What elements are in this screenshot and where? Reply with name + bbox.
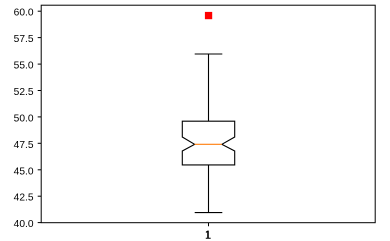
y tick 42.5 bbox=[14, 193, 42, 204]
svg-text:60.0: 60.0 bbox=[14, 8, 34, 19]
median line bbox=[195, 143, 222, 145]
axes frame bbox=[41, 5, 375, 223]
svg-text:57.5: 57.5 bbox=[14, 34, 34, 45]
svg-text:52.5: 52.5 bbox=[14, 87, 34, 98]
lower cap bbox=[195, 212, 223, 214]
upper whisker bbox=[208, 54, 210, 121]
svg-text:40.0: 40.0 bbox=[14, 219, 34, 230]
y tick 60.0 bbox=[14, 8, 42, 19]
y tick 40.0 bbox=[14, 219, 42, 230]
y tick 45.0 bbox=[14, 166, 42, 177]
lower whisker bbox=[208, 165, 210, 213]
svg-text:55.0: 55.0 bbox=[14, 61, 34, 72]
y tick 55.0 bbox=[14, 61, 42, 72]
y tick 47.5 bbox=[14, 140, 42, 151]
notched box bbox=[182, 121, 234, 165]
y tick 52.5 bbox=[14, 87, 42, 98]
svg-text:50.0: 50.0 bbox=[14, 113, 34, 124]
svg-text:47.5: 47.5 bbox=[14, 140, 34, 151]
svg-text:42.5: 42.5 bbox=[14, 193, 34, 204]
x tick 1 bbox=[206, 223, 211, 239]
upper cap bbox=[195, 53, 223, 55]
svg-text:45.0: 45.0 bbox=[14, 166, 34, 177]
flier (red square outlier) bbox=[205, 12, 212, 19]
y tick 50.0 bbox=[14, 113, 42, 124]
y tick 57.5 bbox=[14, 34, 42, 45]
